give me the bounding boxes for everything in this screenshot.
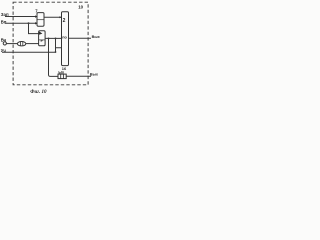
wire oscillator left (6, 43, 17, 45)
node C junction (55, 37, 57, 39)
pin mark U1 top (35, 15, 38, 17)
pin mark U1 bottom (35, 22, 38, 24)
dashed enclosure border (13, 2, 88, 85)
svg-text:по: по (62, 36, 67, 40)
wire drop to X1 (49, 38, 59, 76)
block U1 (37, 13, 44, 27)
wire input 2 (5, 22, 37, 24)
block U2 (62, 12, 69, 66)
svg-text:Вч: Вч (1, 38, 7, 43)
block U3 (39, 31, 46, 46)
terminal input 3 (3, 42, 6, 45)
wire U3 to U2 (45, 37, 61, 39)
svg-text:Вп: Вп (1, 20, 7, 25)
node B junction (48, 37, 50, 39)
svg-text:Вых: Вых (92, 35, 100, 39)
node D junction (55, 51, 57, 53)
wire drop to U2 pin (55, 38, 57, 47)
wire input 4 long (2, 48, 62, 53)
wire branch to U3 (29, 23, 39, 33)
wire U1 to U2 (44, 16, 62, 18)
crystal G1 (17, 42, 25, 46)
wire oscillator right (26, 43, 39, 45)
node A junction (28, 22, 30, 24)
pin mark U2 in (59, 16, 61, 18)
svg-text:Фиг. 10: Фиг. 10 (30, 90, 47, 95)
svg-text:Ып: Ып (58, 71, 64, 75)
connector X1 (58, 74, 66, 79)
wire input 1 (5, 16, 37, 18)
wire output bottom (66, 75, 91, 77)
svg-text:10: 10 (78, 5, 83, 10)
svg-text:Вых: Вых (90, 73, 99, 77)
wire output top (69, 37, 92, 39)
svg-text:2: 2 (63, 18, 66, 24)
svg-text:Уч: Уч (1, 48, 7, 53)
pin mark U3 mid (41, 40, 44, 42)
pin mark U3 top (39, 31, 42, 34)
svg-text:Зап: Зап (1, 12, 9, 17)
